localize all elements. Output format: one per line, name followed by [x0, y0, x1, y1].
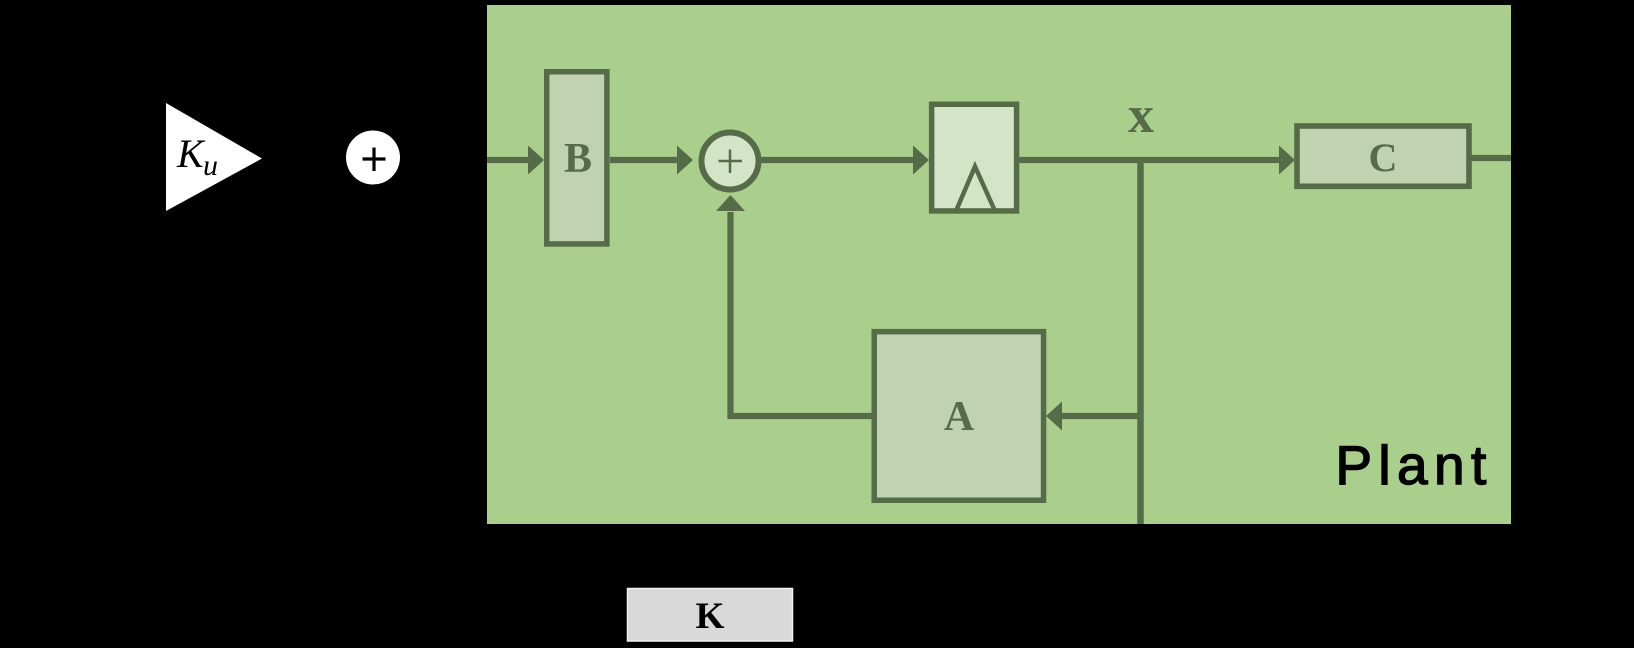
- svg-text:Plant: Plant: [1335, 434, 1492, 496]
- svg-text:K: K: [176, 131, 206, 176]
- svg-text:x: x: [1128, 87, 1154, 144]
- svg-text:u: u: [203, 149, 218, 182]
- svg-text:B: B: [564, 136, 592, 182]
- svg-text:C: C: [1369, 135, 1398, 180]
- svg-text:K: K: [696, 596, 725, 637]
- svg-text:A: A: [944, 394, 975, 440]
